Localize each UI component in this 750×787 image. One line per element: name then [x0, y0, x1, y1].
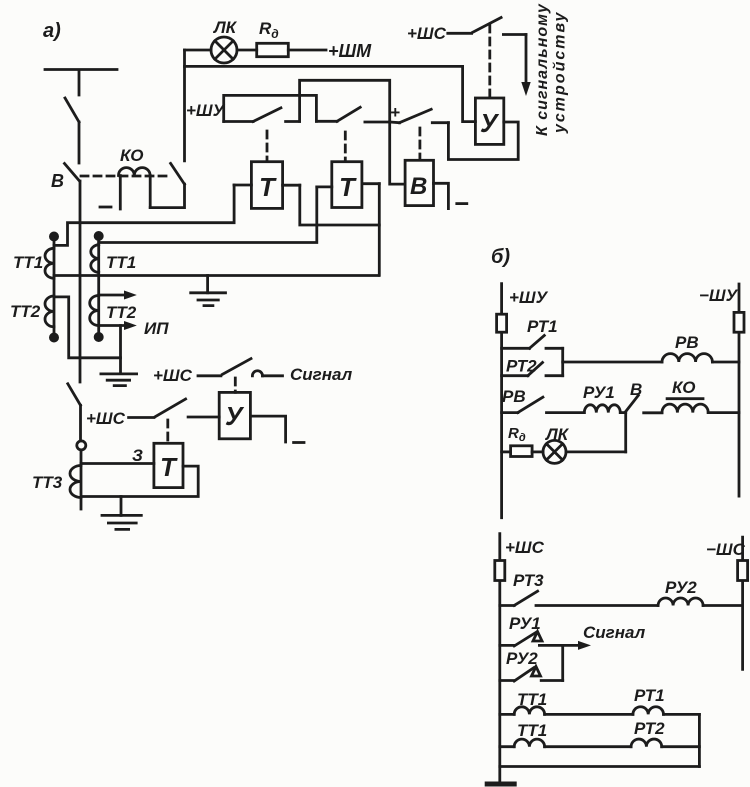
svg-text:РТ3: РТ3: [513, 571, 544, 590]
contact РУ1: [500, 614, 563, 646]
ground (TT2 neutral): [101, 374, 137, 386]
node +ШУ: [186, 101, 226, 120]
coil РТ1: [633, 686, 700, 714]
label б): [491, 246, 510, 268]
bus +ШУ: [502, 284, 549, 518]
fuse (+ШС): [495, 561, 505, 581]
wire В-box feed: [390, 122, 405, 184]
coil РУ1: [583, 383, 626, 413]
relay В: [405, 160, 448, 208]
svg-text:устройству: устройству: [552, 11, 569, 134]
node minus (В relay): [457, 202, 467, 205]
relay Т (T1): [234, 162, 300, 209]
svg-text:+ШС: +ШС: [505, 538, 545, 557]
wire L2 (Т1 right to Т2 right): [300, 185, 380, 225]
contact +ШС (bottom): [86, 399, 219, 428]
wire lamp vertical: [183, 50, 186, 161]
wire L1 (col1 to Т1 left): [54, 185, 234, 245]
svg-text:РУ1: РУ1: [509, 614, 541, 633]
dashed link to У: [488, 25, 491, 98]
svg-text:ТТ1: ТТ1: [517, 721, 547, 740]
svg-text:Т: Т: [339, 172, 357, 202]
svg-text:+ШУ: +ШУ: [186, 101, 226, 120]
wire РУ1-РУ2 tie: [561, 645, 564, 680]
relay У (bottom): [219, 392, 250, 438]
contact РТ3: [500, 571, 658, 606]
contact РВ: [502, 387, 585, 413]
relay У (top): [475, 98, 503, 144]
coil ТТ1 (row4): [500, 690, 633, 714]
svg-text:+ШС: +ШС: [407, 24, 447, 43]
lamp ЛК: [185, 18, 257, 63]
svg-text:У: У: [480, 108, 500, 138]
svg-text:РТ1: РТ1: [527, 317, 558, 336]
svg-text:+ШС: +ШС: [153, 366, 193, 385]
contact Т2: [316, 107, 389, 160]
svg-text:Т: Т: [259, 172, 277, 202]
svg-text:ЛК: ЛК: [544, 425, 570, 444]
resistor Rд: [257, 19, 289, 57]
svg-text:+ШМ: +ШМ: [328, 41, 372, 61]
wire У bottom right: [250, 416, 285, 442]
disconnector switch bottom-left: [68, 384, 81, 406]
label К сигнальному устройству: [534, 3, 569, 136]
bus −ШС: [706, 537, 746, 669]
svg-text:ТТ2: ТТ2: [106, 303, 137, 322]
node +ШМ: [288, 41, 372, 61]
svg-text:ТТ3: ТТ3: [32, 473, 63, 492]
wire Т return vertical: [378, 184, 381, 276]
wire L3 (col2 to Т2 left): [99, 187, 317, 243]
contact В (б): [626, 380, 662, 413]
contact + (В aux): [390, 103, 449, 159]
fuse (−ШУ): [734, 312, 744, 332]
svg-text:−ШУ: −ШУ: [699, 286, 739, 305]
svg-text:ТТ2: ТТ2: [10, 302, 41, 321]
svg-text:РУ2: РУ2: [665, 578, 697, 597]
contact Т1: [224, 108, 300, 160]
svg-text:У: У: [225, 401, 245, 431]
CT ТТ3: [32, 405, 86, 509]
coil ТТ1 (row5): [500, 721, 631, 747]
svg-text:+: +: [390, 103, 400, 122]
bus −ШУ: [699, 284, 739, 496]
svg-text:−ШС: −ШС: [706, 540, 746, 559]
CT ТТ1 ТТ2 column 1: [10, 233, 58, 341]
bus +ШС: [500, 534, 545, 783]
disconnector switch top-left: [65, 98, 79, 122]
svg-text:Т: Т: [160, 452, 178, 482]
relay Т (T2): [317, 162, 380, 208]
svg-text:В: В: [410, 173, 427, 200]
signal arrow (б): [563, 623, 646, 650]
svg-text:+ШС: +ШС: [86, 409, 126, 428]
breaker В: [51, 164, 80, 192]
coil РВ: [563, 333, 739, 362]
wire L4 (secondary return): [54, 274, 379, 277]
trip coil КО: [119, 146, 151, 209]
svg-text:Rд: Rд: [508, 425, 526, 444]
svg-text:ИП: ИП: [144, 319, 169, 338]
breaker aux contact: [171, 163, 185, 184]
wire ШУ jumper: [224, 95, 317, 121]
contact РУ2: [500, 649, 563, 681]
resistor Rд (б): [502, 425, 543, 457]
wire coil to aux contact: [150, 184, 184, 207]
ground (ТТ3 circuit): [102, 497, 141, 530]
node ИП arrows: [99, 291, 170, 339]
svg-text:КО: КО: [120, 146, 143, 165]
svg-text:ТТ1: ТТ1: [106, 253, 136, 272]
contact +ШС (top): [407, 18, 526, 44]
wire Т return bottom: [81, 466, 198, 496]
fuse (+ШУ): [497, 314, 507, 332]
wire: [78, 122, 81, 163]
svg-text:КО: КО: [672, 378, 695, 397]
fuse (−ШС): [738, 561, 748, 581]
busbar top-left: [45, 70, 117, 96]
wire TT2 neutral: [54, 297, 121, 374]
wire top jumper: [300, 80, 390, 122]
svg-text:а): а): [43, 20, 61, 42]
svg-text:РУ2: РУ2: [506, 649, 538, 668]
svg-text:+ШУ: +ШУ: [509, 288, 549, 307]
label а): [43, 20, 61, 42]
CT ТТ1 ТТ2 column 2: [90, 232, 137, 340]
contact +ШС (Сигнал row): [153, 359, 353, 393]
svg-text:б): б): [491, 246, 510, 268]
contact РТ1: [502, 317, 563, 348]
svg-text:ЛК: ЛК: [212, 18, 238, 37]
label З: [132, 446, 143, 465]
coil КО (б): [662, 378, 739, 413]
wire У loop: [448, 122, 518, 160]
svg-text:Сигнал: Сигнал: [290, 365, 353, 384]
lamp ЛК (б): [543, 425, 626, 463]
wire right tie (rows 4-5): [698, 714, 701, 766]
svg-text:РВ: РВ: [502, 387, 526, 406]
node minus (У bottom): [294, 441, 304, 444]
wire bottom return: [500, 765, 700, 768]
coil РТ2: [631, 719, 699, 747]
relay Т (bottom): [81, 420, 183, 488]
svg-text:РУ1: РУ1: [583, 383, 615, 402]
node minus (КО coil): [100, 206, 111, 209]
signal arrow: [521, 35, 530, 97]
svg-text:Rд: Rд: [259, 19, 279, 41]
mechanical linkage (dashed): [81, 175, 172, 178]
svg-text:К сигнальному: К сигнальному: [534, 3, 551, 136]
wire left bus down: [79, 181, 82, 382]
svg-text:РВ: РВ: [675, 333, 699, 352]
bus end bar: [487, 782, 514, 787]
wire ШМ long line: [185, 66, 476, 121]
svg-text:Сигнал: Сигнал: [583, 623, 646, 642]
svg-text:РТ2: РТ2: [634, 719, 665, 738]
ground (secondary circuit): [191, 276, 226, 306]
svg-text:РТ1: РТ1: [634, 686, 665, 705]
coil РУ2: [658, 578, 743, 606]
wire В contact to lamp row: [624, 413, 627, 452]
svg-text:В: В: [51, 171, 64, 191]
svg-text:ТТ1: ТТ1: [13, 253, 43, 272]
contact РТ2: [502, 348, 563, 375]
